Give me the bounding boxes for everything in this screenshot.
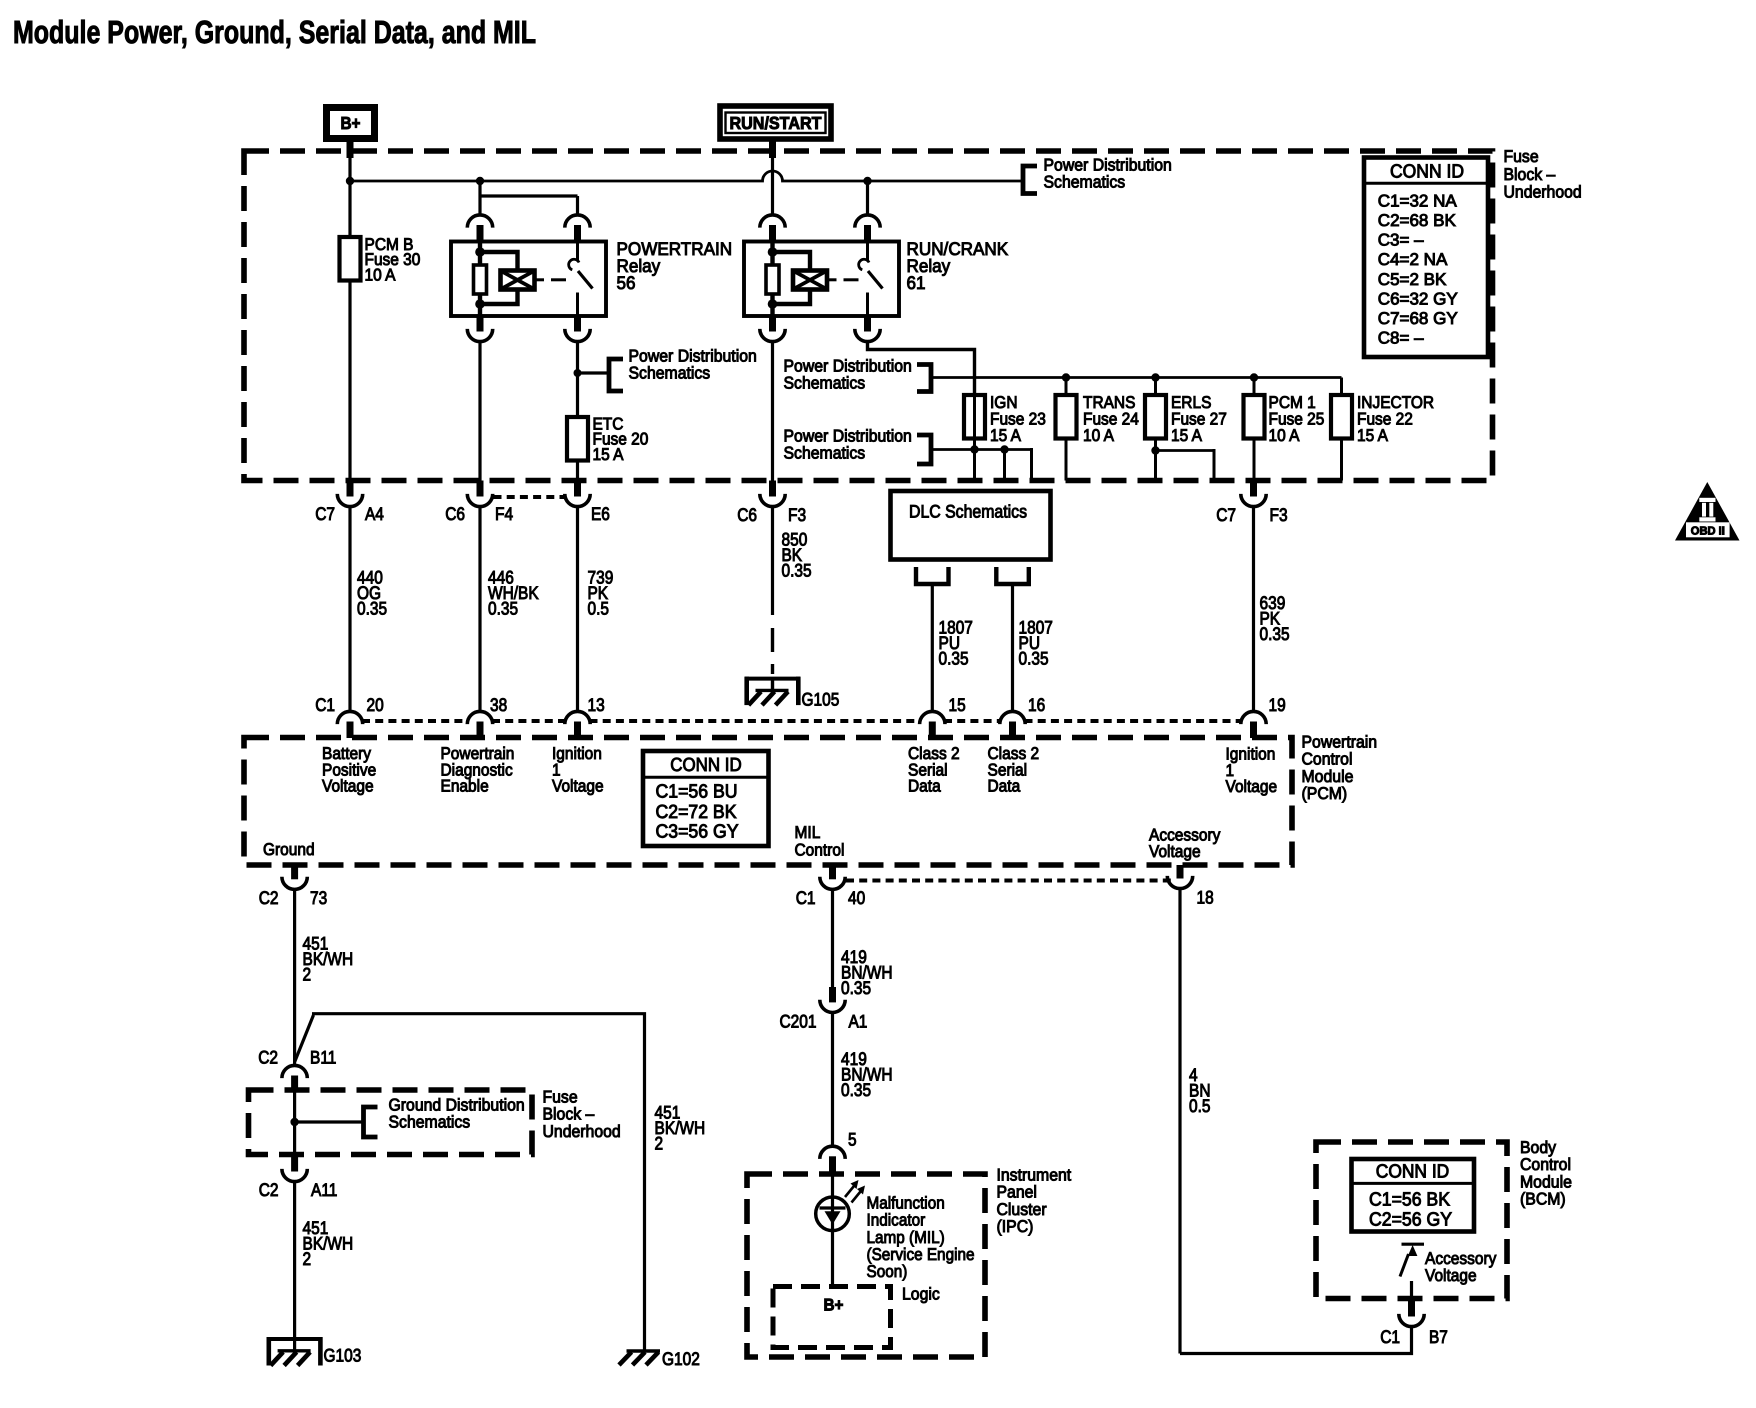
conn id table fuse block	[1364, 158, 1488, 358]
wire into MIL lamp	[831, 1176, 834, 1287]
run/crank relay coil box	[793, 271, 827, 290]
svg-text:B+: B+	[824, 1296, 844, 1315]
svg-text:Power Distribution: Power Distribution	[1044, 155, 1172, 174]
svg-text:C5=2 BK: C5=2 BK	[1378, 270, 1447, 289]
ground distribution box	[249, 1090, 533, 1155]
obd ii symbol	[1675, 482, 1740, 541]
powertrain relay coil box	[501, 271, 535, 290]
svg-text:13: 13	[588, 695, 605, 715]
svg-text:C6: C6	[445, 504, 465, 524]
svg-text:19: 19	[1269, 695, 1286, 715]
svg-text:A1: A1	[849, 1012, 868, 1032]
junction bus to run/crank relay	[863, 177, 871, 185]
svg-text:B+: B+	[341, 113, 361, 133]
wire 1807 PU 0.35 (right)	[1011, 584, 1014, 710]
lamp MIL indicator	[816, 1197, 850, 1231]
svg-text:Data: Data	[988, 777, 1021, 796]
svg-text:CONN ID: CONN ID	[1390, 162, 1464, 183]
svg-text:Power Distribution: Power Distribution	[784, 356, 912, 375]
run/crank relay coil circuit	[770, 242, 774, 316]
svg-text:RUN/START: RUN/START	[730, 113, 822, 133]
ground G102	[627, 1349, 661, 1352]
fuse ETC Fuse 20 15A	[567, 417, 588, 461]
wire pin18 to BCM B7	[1180, 1327, 1412, 1354]
svg-text:F4: F4	[495, 504, 513, 524]
svg-text:Control: Control	[1302, 750, 1353, 769]
svg-text:C1: C1	[315, 695, 335, 715]
svg-text:Ground Distribution: Ground Distribution	[389, 1095, 525, 1114]
exit connector C7/A4	[347, 481, 354, 497]
svg-text:Lamp (MIL): Lamp (MIL)	[867, 1228, 945, 1247]
wire RUN/START into fuse block	[769, 139, 776, 158]
svg-text:C1: C1	[1380, 1327, 1400, 1347]
svg-text:Enable: Enable	[441, 777, 489, 796]
svg-text:A11: A11	[311, 1180, 337, 1200]
svg-text:Panel: Panel	[997, 1183, 1037, 1202]
junction ERLS branch	[1151, 446, 1159, 454]
svg-text:0.35: 0.35	[841, 978, 871, 998]
powertrain relay switch	[576, 242, 579, 262]
wire 440 OG 0.35	[348, 508, 351, 710]
svg-text:A4: A4	[365, 504, 384, 524]
wire 419 BN/WH 0.35 from pin 40	[831, 891, 834, 987]
pcm connector dotted line C1 bottom	[846, 879, 1174, 883]
run/crank relay actuator dashes	[829, 278, 837, 281]
svg-text:Fuse: Fuse	[543, 1087, 578, 1106]
svg-text:Soon): Soon)	[867, 1262, 908, 1281]
module IPC border	[747, 1174, 985, 1357]
fuse ERLS Fuse 27 15A	[1154, 440, 1157, 481]
svg-text:73: 73	[310, 888, 327, 908]
svg-text:18: 18	[1197, 888, 1214, 908]
wire run/crank coil out to exit C6/F3	[771, 343, 774, 481]
svg-text:15 A: 15 A	[593, 445, 625, 464]
exit connector C7/F3 (PCM1)	[1250, 481, 1257, 497]
svg-text:Instrument: Instrument	[997, 1165, 1072, 1184]
ground G103	[267, 1337, 322, 1341]
svg-text:2: 2	[655, 1134, 664, 1154]
svg-text:Underhood: Underhood	[1504, 183, 1582, 202]
pcm pin C2/73	[291, 865, 298, 879]
dlc connector cups	[916, 567, 949, 584]
svg-text:20: 20	[367, 695, 384, 715]
powertrain relay actuator dashes	[536, 278, 544, 281]
run/crank relay switch	[866, 242, 869, 262]
svg-text:61: 61	[907, 273, 926, 293]
lamp arrows	[845, 1186, 854, 1197]
wire PCM B fuse to exit C7/A4	[348, 280, 351, 481]
pcm pin 18	[1177, 865, 1184, 879]
pcm connector dotted line C1/C2	[362, 719, 468, 723]
tab power distribution schematics (ETC branch)	[578, 371, 610, 374]
svg-text:2: 2	[303, 965, 312, 985]
svg-text:Data: Data	[908, 777, 941, 796]
junction IGN branch	[970, 445, 978, 453]
svg-text:15 A: 15 A	[1171, 426, 1203, 445]
svg-text:Indicator: Indicator	[867, 1211, 926, 1230]
fuse bus wire	[975, 376, 1342, 379]
svg-text:DLC Schematics: DLC Schematics	[909, 502, 1027, 522]
wire 4 BN 0.5 from pin 18	[1178, 890, 1181, 1354]
pcm pin 16	[1000, 711, 1025, 724]
relay POWERTRAIN Relay 56	[451, 242, 606, 317]
svg-text:B11: B11	[310, 1048, 336, 1068]
svg-text:C7=68 GY: C7=68 GY	[1378, 309, 1458, 328]
connector group dashes F4-E6	[494, 495, 565, 499]
svg-text:Voltage: Voltage	[322, 777, 374, 796]
ipc pin 5	[820, 1146, 845, 1159]
svg-text:Block –: Block –	[1504, 165, 1556, 184]
wire 639 PK 0.35	[1252, 508, 1255, 710]
svg-text:C1: C1	[796, 888, 816, 908]
svg-text:C8= –: C8= –	[1378, 329, 1424, 348]
svg-text:16: 16	[1028, 695, 1045, 715]
pcm pin 15	[920, 711, 945, 724]
svg-text:5: 5	[848, 1130, 857, 1150]
svg-text:Voltage: Voltage	[1425, 1266, 1477, 1285]
junction bus to powertrain relay	[476, 177, 484, 185]
svg-text:G105: G105	[802, 690, 840, 710]
svg-text:Module: Module	[1520, 1172, 1572, 1191]
svg-text:Schematics: Schematics	[1044, 173, 1126, 192]
svg-text:38: 38	[490, 695, 507, 715]
svg-text:C6=32 GY: C6=32 GY	[1378, 289, 1458, 308]
relay RUN/CRANK Relay 61	[744, 242, 899, 317]
svg-text:(Service Engine: (Service Engine	[867, 1245, 975, 1264]
svg-text:2: 2	[303, 1249, 312, 1269]
wire powertrain relay coil out to exit C6/F4	[478, 343, 481, 481]
wire 1807 PU 0.35 (left)	[931, 584, 934, 710]
junction B+ bus	[346, 177, 354, 185]
svg-text:C4=2 NA: C4=2 NA	[1378, 250, 1448, 269]
power node B+	[327, 108, 375, 139]
svg-text:Control: Control	[1520, 1155, 1571, 1174]
svg-text:10 A: 10 A	[1269, 426, 1301, 445]
svg-text:10 A: 10 A	[1083, 426, 1115, 445]
svg-text:C2=68 BK: C2=68 BK	[1378, 211, 1457, 230]
svg-text:Schematics: Schematics	[629, 364, 711, 383]
svg-text:OBD II: OBD II	[1691, 526, 1725, 538]
svg-text:15 A: 15 A	[1357, 426, 1389, 445]
pcm pin C1/40	[829, 865, 836, 879]
junction ground distribution	[290, 1118, 298, 1126]
tab power distribution schematics (top right)	[1023, 166, 1037, 194]
fuse IGN Fuse 23 15A	[973, 395, 976, 481]
svg-text:0.35: 0.35	[939, 649, 969, 669]
svg-text:Voltage: Voltage	[1149, 842, 1201, 861]
connector C201/A1 inline	[829, 987, 836, 1002]
svg-text:0.35: 0.35	[488, 599, 518, 619]
wire run/crank switch out to fuse bus	[868, 343, 975, 395]
svg-text:Schematics: Schematics	[389, 1113, 471, 1132]
svg-text:CONN ID: CONN ID	[670, 755, 742, 776]
svg-text:0.35: 0.35	[782, 561, 812, 581]
wire PCM1 fuse to exit C7/F3	[1253, 440, 1256, 478]
wire 451 BK/WH 2 horizontal to G102	[312, 1014, 645, 1351]
wire 451 BK/WH 2 from pin 73	[293, 891, 296, 1064]
svg-text:C7: C7	[1216, 505, 1236, 525]
svg-text:C2=56 GY: C2=56 GY	[1369, 1210, 1452, 1231]
svg-text:0.35: 0.35	[1019, 649, 1049, 669]
connector arcs powertrain relay bottom pins	[477, 316, 484, 332]
svg-text:0.5: 0.5	[588, 599, 610, 619]
svg-text:C2: C2	[259, 1180, 279, 1200]
module PCM border	[244, 738, 1292, 866]
svg-text:C3= –: C3= –	[1378, 231, 1424, 250]
pcm pin 13	[565, 711, 590, 724]
svg-text:(PCM): (PCM)	[1302, 784, 1348, 803]
svg-text:Module Power, Ground, Serial D: Module Power, Ground, Serial Data, and M…	[13, 14, 536, 50]
svg-text:40: 40	[848, 888, 865, 908]
svg-text:C2=72 BK: C2=72 BK	[656, 802, 737, 823]
svg-text:B7: B7	[1429, 1327, 1448, 1347]
svg-text:Power Distribution: Power Distribution	[784, 426, 912, 445]
wire 446 WH/BK 0.35	[478, 508, 481, 710]
svg-text:Control: Control	[795, 841, 845, 860]
ground G105	[745, 677, 800, 681]
svg-text:C7: C7	[315, 504, 335, 524]
wire ETC fuse to exit E6	[576, 462, 579, 481]
connector arcs run/crank relay bottom pins	[769, 316, 776, 332]
svg-text:(IPC): (IPC)	[997, 1217, 1034, 1236]
svg-text:Schematics: Schematics	[784, 444, 866, 463]
svg-text:Ground: Ground	[263, 840, 315, 859]
svg-text:G103: G103	[324, 1346, 362, 1366]
svg-text:(BCM): (BCM)	[1520, 1190, 1566, 1209]
svg-text:Block –: Block –	[543, 1105, 595, 1124]
fuse PCM 1 Fuse 25 10A	[1244, 395, 1265, 439]
svg-text:15 A: 15 A	[990, 426, 1022, 445]
wire 850 BK 0.35 to ground	[771, 508, 774, 615]
svg-text:C6: C6	[737, 505, 757, 525]
svg-text:0.35: 0.35	[841, 1080, 871, 1100]
svg-text:C3=56 GY: C3=56 GY	[656, 822, 739, 843]
svg-text:Fuse: Fuse	[1504, 147, 1539, 166]
svg-text:Body: Body	[1520, 1138, 1556, 1157]
run/crank relay suppression resistor	[766, 265, 779, 294]
svg-text:0.35: 0.35	[357, 599, 387, 619]
powertrain relay coil circuit	[478, 242, 482, 316]
svg-text:10 A: 10 A	[365, 266, 397, 285]
svg-text:Module: Module	[1302, 767, 1354, 786]
svg-text:Voltage: Voltage	[1226, 777, 1278, 796]
pcm pin 19	[1241, 711, 1266, 724]
svg-text:Underhood: Underhood	[543, 1122, 621, 1141]
svg-text:C1=56 BU: C1=56 BU	[656, 782, 738, 803]
fuse block - underhood border	[244, 151, 1493, 481]
svg-text:G102: G102	[662, 1349, 700, 1369]
exit connector C6/F4	[477, 481, 484, 497]
bcm pin C1/B7	[1408, 1299, 1415, 1317]
box DLC Schematics	[891, 491, 1051, 560]
svg-text:15: 15	[949, 695, 966, 715]
wire B+ into fuse block	[347, 139, 354, 158]
conn id table BCM	[1352, 1159, 1475, 1232]
svg-text:MIL: MIL	[795, 823, 821, 842]
connector arcs powertrain relay top pins	[467, 215, 492, 228]
svg-text:Malfunction: Malfunction	[867, 1193, 945, 1212]
wire bus to powertrain relay pins	[478, 181, 481, 214]
junction ETC branch	[574, 369, 582, 377]
bcm accessory voltage switch	[1402, 1243, 1425, 1246]
svg-text:56: 56	[617, 273, 636, 293]
exit connector E6	[574, 481, 581, 497]
connector C2/B11	[282, 1065, 307, 1078]
connector arcs run/crank relay top pins	[760, 215, 785, 228]
wire 419 BN/WH 0.35 to IPC	[831, 1014, 834, 1145]
svg-text:Logic: Logic	[902, 1285, 940, 1304]
svg-text:C2: C2	[258, 1048, 278, 1068]
connector C2/A11	[291, 1155, 298, 1172]
svg-text:E6: E6	[591, 504, 610, 524]
svg-text:C2: C2	[259, 888, 279, 908]
svg-text:F3: F3	[788, 505, 806, 525]
powertrain relay suppression resistor	[474, 265, 487, 294]
wire 451 BK/WH 2 to G103	[293, 1183, 296, 1351]
tab ground distribution schematics	[364, 1107, 378, 1137]
svg-text:Schematics: Schematics	[784, 374, 866, 393]
wire 739 PK 0.5	[576, 508, 579, 710]
svg-text:C1=56 BK: C1=56 BK	[1369, 1190, 1450, 1211]
bus wire from B+ with hop over RUN/START wire	[350, 171, 1023, 181]
module BCM border	[1316, 1142, 1507, 1299]
fuse PCM B Fuse 30 10A	[340, 237, 361, 281]
svg-text:Voltage: Voltage	[552, 777, 604, 796]
fuse TRANS Fuse 24 10A	[1065, 440, 1068, 481]
svg-text:Cluster: Cluster	[997, 1200, 1047, 1219]
pcm pin 20	[337, 711, 362, 724]
svg-text:Power Distribution: Power Distribution	[629, 346, 757, 365]
fuse INJECTOR Fuse 22 15A	[1340, 440, 1343, 481]
logic box	[773, 1287, 891, 1348]
svg-text:CONN ID: CONN ID	[1376, 1162, 1450, 1183]
power node RUN/START	[720, 106, 831, 139]
wire 451 branch diagonal	[295, 1015, 314, 1062]
svg-text:C1=32 NA: C1=32 NA	[1378, 191, 1458, 210]
svg-text:Accessory: Accessory	[1425, 1249, 1497, 1268]
svg-text:Powertrain: Powertrain	[1302, 732, 1378, 751]
svg-text:C201: C201	[780, 1012, 817, 1032]
exit connector C6/F3	[769, 481, 776, 497]
svg-text:0.35: 0.35	[1260, 624, 1290, 644]
conn id table PCM	[643, 751, 769, 846]
wire powertrain relay switch out	[576, 343, 579, 417]
svg-text:F3: F3	[1270, 505, 1288, 525]
pcm pin 38	[467, 711, 492, 724]
svg-text:0.5: 0.5	[1189, 1096, 1211, 1116]
